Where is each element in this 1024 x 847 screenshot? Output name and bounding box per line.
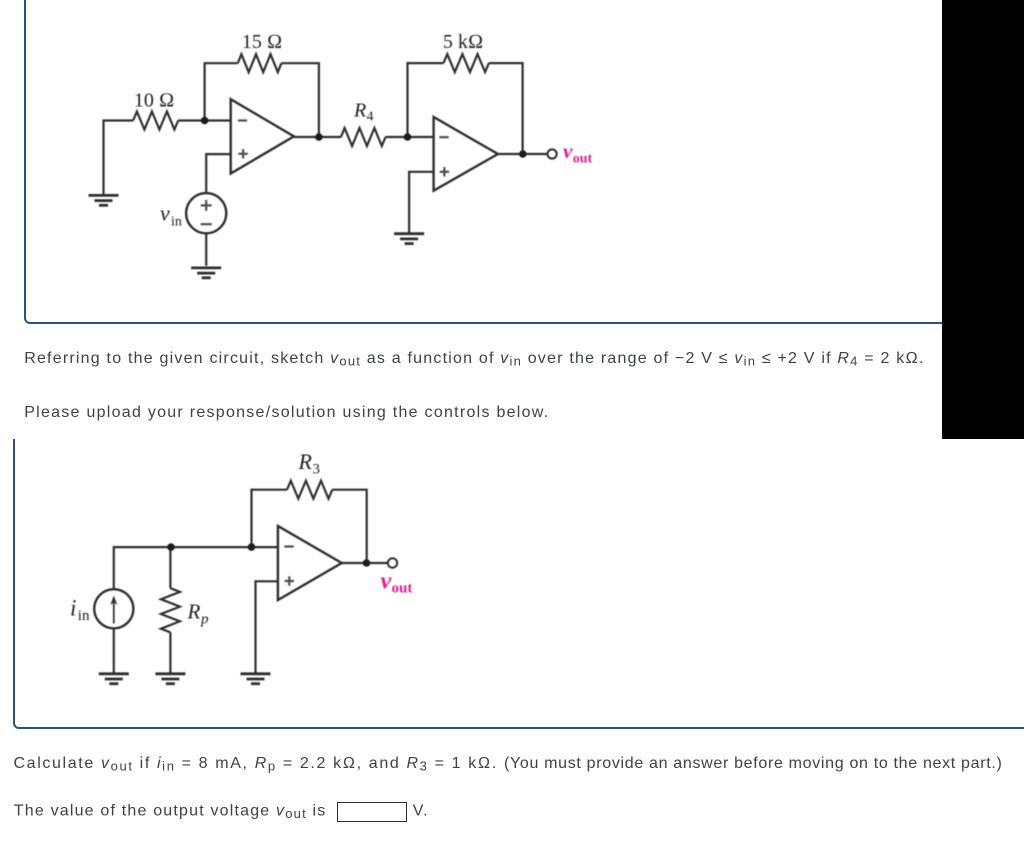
svg-text:5 kΩ: 5 kΩ (443, 31, 483, 53)
svg-text:p: p (200, 612, 209, 628)
svg-text:in: in (171, 215, 182, 230)
svg-text:15 Ω: 15 Ω (242, 31, 282, 53)
svg-text:R: R (353, 100, 366, 122)
svg-text:v: v (381, 569, 392, 595)
svg-text:out: out (392, 581, 413, 597)
svg-text:3: 3 (313, 462, 321, 478)
svg-text:10 Ω: 10 Ω (134, 90, 174, 112)
svg-text:4: 4 (367, 110, 374, 125)
svg-text:v: v (563, 139, 573, 163)
svg-text:out: out (573, 152, 593, 167)
svg-text:R: R (187, 600, 201, 624)
svg-text:i: i (70, 596, 76, 621)
svg-text:R: R (298, 449, 313, 474)
svg-text:in: in (78, 608, 90, 624)
svg-text:v: v (160, 201, 170, 226)
